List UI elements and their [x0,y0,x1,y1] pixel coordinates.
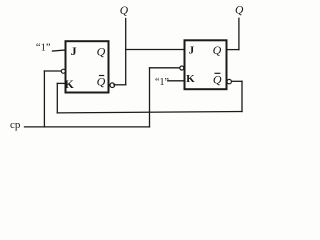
clock bubble U2 [180,66,184,70]
wire to Qbar bubble of U2 [231,80,242,82]
overbar of Qbar U2 [215,72,220,74]
flip-flop U1 box [66,41,109,92]
svg-text:Q: Q [120,5,129,17]
wire "1" to J of U1 [53,50,66,51]
wire U2 clock [150,67,180,69]
svg-text:Q: Q [213,43,222,57]
wire Q output of U2 [227,49,239,51]
wire U1 clock [44,70,60,72]
svg-text:“1”: “1” [36,42,51,53]
flip-flop U2 box [185,40,227,89]
wire cp horizontal [25,126,150,128]
svg-text:“1”: “1” [155,77,169,88]
wire "1" to K of U2 [168,80,185,82]
wire node Q riser (Qbar U1 up to Q label) [125,19,127,85]
Qbar bubble U1 [110,83,115,88]
overbar of Qbar U1 [100,75,104,77]
svg-text:J: J [189,44,195,56]
wire Qbar of U1 to riser [114,84,126,86]
wire cp riser to U1 clock [43,71,45,127]
wire cp riser to U2 clock [149,68,151,127]
wire feedback right riser [241,81,243,111]
clock bubble U1 [61,69,65,73]
svg-text:K: K [65,77,75,91]
svg-text:Q: Q [235,4,244,16]
wire feedback bottom [57,112,242,113]
svg-text:cp: cp [10,119,21,131]
wire K of U1 [57,82,65,84]
wire to J of U2 [126,49,185,51]
wire Q2 riser to Q label [238,18,240,49]
svg-text:Q: Q [213,73,222,87]
svg-text:Q: Q [97,75,106,89]
svg-text:Q: Q [97,45,106,59]
wire K1 riser down [56,83,58,113]
svg-text:J: J [71,44,77,58]
svg-text:K: K [186,73,195,85]
Qbar bubble U2 [227,79,231,83]
